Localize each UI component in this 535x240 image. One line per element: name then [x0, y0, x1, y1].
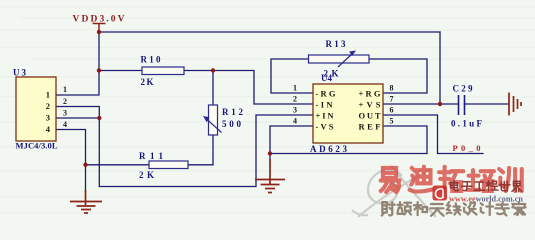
watermark gray text 射频和天线设计专家: [382, 202, 395, 215]
watermark sketch lines: [352, 166, 436, 217]
svg-text:+RG: +RG: [359, 89, 381, 99]
power VDD3.0V: [73, 15, 125, 33]
earth ground right: [509, 93, 521, 116]
svg-text:www.eeworld.com.cn: www.eeworld.com.cn: [449, 195, 523, 204]
ground below U3: [70, 190, 102, 213]
resistor R11: [139, 151, 188, 180]
svg-text:3: 3: [63, 109, 67, 118]
svg-text:REF: REF: [359, 122, 381, 132]
potentiometer R12: [203, 105, 244, 135]
wire -VS down: [270, 126, 313, 159]
wire R12 top: [212, 71, 214, 106]
junction node U3 pin3: [97, 116, 101, 120]
junction node REF ground: [268, 151, 272, 155]
svg-text:+VS: +VS: [359, 100, 381, 110]
resistor R10: [141, 55, 185, 88]
watermark text 电子工程世界: [451, 181, 459, 191]
wire U3 pin3 to +IN: [56, 115, 313, 187]
svg-text:2: 2: [63, 97, 67, 106]
svg-text:+IN: +IN: [316, 111, 335, 121]
junction node R12 top: [211, 68, 215, 72]
svg-text:1: 1: [63, 85, 67, 94]
junction node R11 left: [83, 163, 87, 167]
svg-text:5: 5: [390, 117, 394, 126]
svg-text:R10: R10: [141, 55, 162, 65]
wire R12 bottom to R11 right: [188, 135, 213, 165]
wire R10 right to -IN riser: [184, 71, 313, 105]
svg-text:C29: C29: [453, 84, 474, 94]
svg-text:R12: R12: [222, 107, 244, 117]
sensor U3: [13, 68, 67, 151]
svg-text:R11: R11: [139, 151, 164, 161]
wire -RG to R13 left: [271, 59, 313, 93]
wire R11 left to ground: [86, 164, 150, 166]
potentiometer R13: [309, 39, 370, 79]
svg-text:3: 3: [293, 106, 297, 115]
svg-text:500: 500: [222, 119, 242, 129]
op-amp U4 AD623: [293, 73, 394, 154]
wire REF line: [270, 126, 427, 154]
wire VDD drop to +VS: [439, 32, 441, 104]
svg-text:OUT: OUT: [359, 111, 381, 121]
watermark big red text 易迪拓培训: [381, 168, 400, 192]
svg-text:1: 1: [293, 84, 297, 93]
svg-text:7: 7: [390, 95, 394, 104]
junction node R10 left: [97, 68, 101, 72]
wire +VS to C29: [383, 103, 459, 105]
svg-text:-VS: -VS: [316, 122, 334, 132]
svg-text:MJC4/3.0L: MJC4/3.0L: [16, 141, 58, 151]
svg-text:2: 2: [46, 101, 50, 111]
capacitor C29: [451, 84, 483, 129]
junction node VDD: [97, 30, 101, 34]
svg-text:4: 4: [63, 120, 67, 129]
svg-text:R13: R13: [326, 39, 347, 49]
wire U3 pin2 down to pin3: [56, 107, 99, 119]
svg-text:4: 4: [293, 117, 297, 126]
svg-text:AD623: AD623: [310, 144, 348, 154]
ground below REF: [255, 159, 285, 193]
svg-text:3: 3: [46, 113, 50, 123]
wire OUT to P0_0: [383, 115, 483, 154]
wire VDD to U3 pin1 and R10 tap: [56, 32, 99, 95]
wire C29 to earth: [465, 103, 509, 105]
svg-text:6: 6: [390, 106, 394, 115]
wire U3 pin4 to ground: [56, 130, 86, 192]
svg-text:8: 8: [390, 84, 394, 93]
svg-text:U4: U4: [321, 73, 333, 83]
wire R13 right to +RG: [369, 59, 427, 93]
wire VDD rail: [99, 31, 440, 33]
junction node +VS: [438, 102, 442, 106]
svg-text:2K: 2K: [141, 77, 154, 87]
svg-text:1: 1: [46, 90, 50, 100]
wire R10 left: [99, 70, 142, 72]
svg-text:2: 2: [293, 95, 297, 104]
svg-text:2K: 2K: [139, 170, 154, 180]
watermark logo eeworld: [433, 186, 448, 201]
